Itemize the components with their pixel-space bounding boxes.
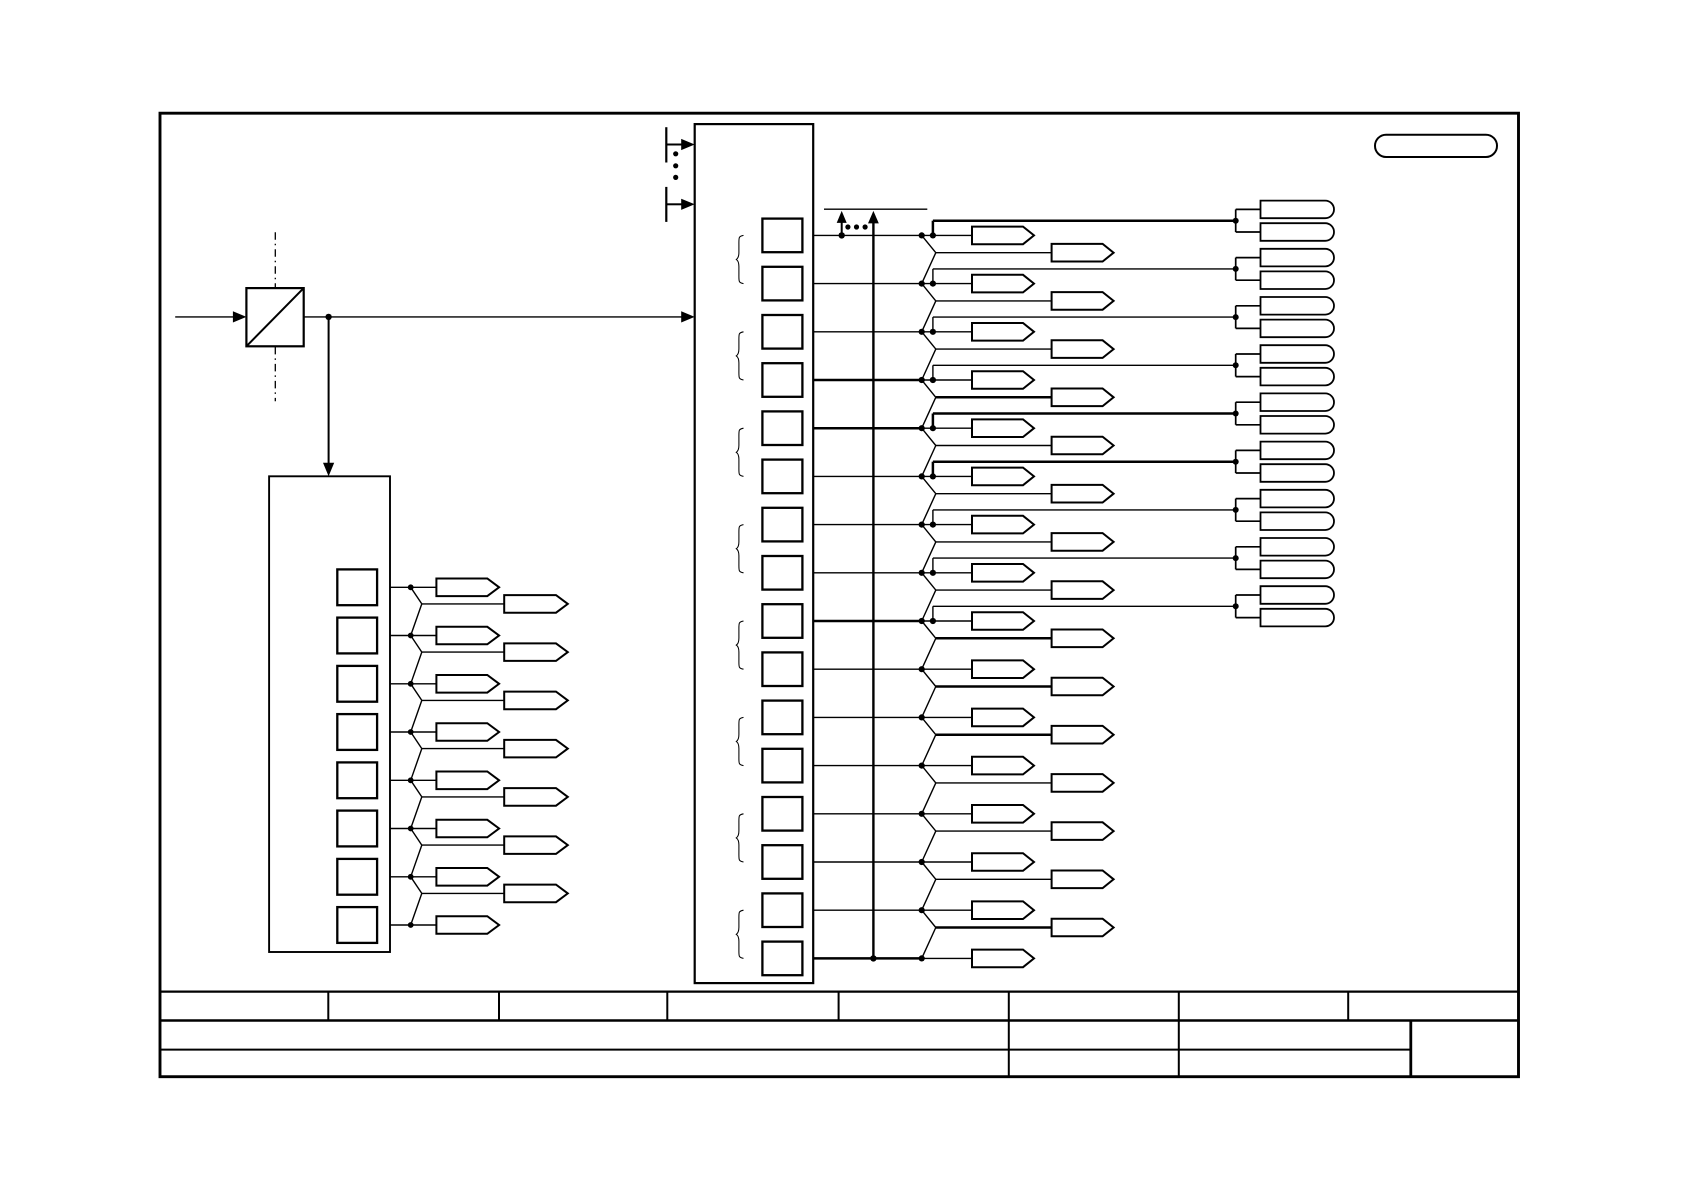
node pair 8 bracket junction <box>1233 555 1239 561</box>
zigzag return L7 <box>411 893 422 925</box>
pair 2 bracket <box>1235 258 1237 281</box>
wire to flag R14a <box>922 861 972 863</box>
sheet label capsule <box>1375 135 1497 157</box>
wire to flag R13a <box>922 813 972 815</box>
wire to flag L4a <box>411 731 437 733</box>
sampling bus vertical arrow line <box>872 222 874 958</box>
bus tap wire 2 <box>666 203 681 205</box>
node B1.5 link junction <box>930 473 936 479</box>
binector flag R10b <box>1052 678 1114 696</box>
bit pair brace 7 <box>736 814 743 862</box>
wire B2.1 output <box>390 635 411 637</box>
wire to flag L5a <box>411 779 437 781</box>
wire to flag L6b <box>422 844 504 846</box>
zigzag diagonal R12 <box>922 766 936 783</box>
wire to flag R15a <box>922 909 972 911</box>
wire to flag R4b <box>936 396 1052 399</box>
interface boundary dash-dot line lower <box>274 347 276 401</box>
wire to flag R9b <box>936 637 1052 640</box>
zigzag return L5 <box>411 797 422 829</box>
wire to flag L1a <box>411 586 437 588</box>
title header cell divider 2 <box>498 992 500 1021</box>
bus tap wire 1 <box>666 144 681 146</box>
node B2.4 junction <box>408 777 414 783</box>
zigzag return R6 <box>922 494 936 525</box>
wire to flag R16a <box>922 957 972 959</box>
wire B1.1 output <box>813 283 922 285</box>
wire to flag L2a <box>411 635 437 637</box>
bit square B2.0 <box>337 569 377 605</box>
bit square B2.6 <box>337 859 377 895</box>
wire B2.6 output <box>390 876 411 878</box>
wire B2.3 output <box>390 731 411 733</box>
wire to flag R14b <box>936 878 1052 880</box>
connector stadium 6 <box>1261 320 1335 338</box>
binector flag R14b <box>1052 871 1114 889</box>
zigzag diagonal R8 <box>922 573 936 590</box>
wire B1.4 output <box>813 427 922 430</box>
connector stadium 9 <box>1261 393 1335 411</box>
connector stadium 1 <box>1261 201 1334 219</box>
title lower divider a <box>1008 1021 1010 1077</box>
wire to flag R12a <box>922 765 972 767</box>
wire B1.0 output <box>813 234 922 236</box>
node B1.2 junction <box>919 329 925 335</box>
input wire <box>175 316 234 318</box>
node B1.4 junction <box>919 425 925 431</box>
interface boundary dash-dot line upper <box>274 232 276 287</box>
node pair 7 bracket junction <box>1233 507 1239 513</box>
binector flag R16a <box>972 950 1034 968</box>
title block row separator line <box>160 1049 1411 1051</box>
title header cell divider 1 <box>327 992 329 1021</box>
zigzag diagonal R15 <box>922 910 936 927</box>
binector flag R2a <box>972 275 1034 293</box>
binector flag R7a <box>972 516 1034 534</box>
binector flag R15b <box>1052 919 1114 937</box>
connector stadium 10 <box>1261 416 1335 434</box>
wire to flag L2b <box>422 651 504 653</box>
zigzag diagonal L3 <box>411 684 422 701</box>
status box B2 <box>269 476 390 952</box>
bus tap bar 1 <box>665 127 667 162</box>
connector stadium 15 <box>1261 538 1334 556</box>
pair 3 bracket <box>1235 306 1237 329</box>
connector stadium 16 <box>1261 561 1335 579</box>
node B2.2 junction <box>408 681 414 687</box>
wire B1.8 output <box>813 620 922 623</box>
node B1.2 link junction <box>930 329 936 335</box>
wire to flag R6b <box>936 493 1052 495</box>
bit pair brace 2 <box>736 332 743 380</box>
node B2.3 junction <box>408 729 414 735</box>
node B1.15 junction <box>919 955 925 961</box>
bit square B1.2 <box>762 315 802 349</box>
zigzag return R1 <box>922 253 936 284</box>
wire to flag R12b <box>936 782 1052 784</box>
wire to flag L3b <box>422 699 504 701</box>
title header cell divider 3 <box>666 992 668 1021</box>
wire to flag R15b <box>936 926 1052 929</box>
binector flag L2a <box>436 627 499 645</box>
binector flag R6a <box>972 468 1034 486</box>
node B1.8 junction <box>919 618 925 624</box>
wire to flag R10b <box>936 685 1052 688</box>
zigzag diagonal L1 <box>411 587 422 604</box>
binector flag R5a <box>972 419 1034 437</box>
title header cell divider 6 <box>1178 992 1180 1021</box>
title header cell divider 5 <box>1008 992 1010 1021</box>
binector flag R6b <box>1052 485 1114 503</box>
binector flag L8a <box>436 916 499 934</box>
zigzag diagonal R7 <box>922 525 936 542</box>
wire B1.13 output <box>813 861 922 863</box>
sampling small arrowhead <box>837 211 847 223</box>
binector flag R15a <box>972 901 1034 919</box>
zigzag return R3 <box>922 349 936 380</box>
wire B1.4 link line <box>933 412 1236 415</box>
drawing frame border <box>160 113 1519 1076</box>
bit square B1.10 <box>762 701 802 735</box>
title lower divider c <box>1409 1021 1412 1077</box>
binector flag R8b <box>1052 581 1114 599</box>
zigzag diagonal R1 <box>922 235 936 252</box>
node B2.1 junction <box>408 633 414 639</box>
node B1.3 link junction <box>930 377 936 383</box>
wire to flag R8b <box>936 589 1052 591</box>
wire B1.5 link line <box>933 460 1236 463</box>
binector flag R3a <box>972 323 1034 341</box>
connector stadium 3 <box>1261 249 1334 267</box>
binector flag L1a <box>436 579 499 597</box>
title lower divider b <box>1178 1021 1180 1077</box>
wire to flag R6a <box>922 475 972 477</box>
node B2.5 junction <box>408 826 414 832</box>
wire to flag R8a <box>922 572 972 574</box>
pair 6 bracket <box>1235 450 1237 473</box>
wire B1.8 link line <box>933 605 1236 607</box>
wire B1.4 link riser <box>932 414 935 429</box>
zigzag return R11 <box>922 735 936 766</box>
wire to flag R3a <box>922 331 972 333</box>
connector stadium 14 <box>1261 512 1334 530</box>
wire B1.0 link line <box>933 219 1236 222</box>
node B1.12 junction <box>919 811 925 817</box>
wire to flag L8a <box>411 924 437 926</box>
title block top line <box>160 990 1519 992</box>
binector flag R12b <box>1052 774 1114 792</box>
wire to flag R11b <box>936 733 1052 736</box>
zigzag diagonal R10 <box>922 669 936 686</box>
binector flag R8a <box>972 564 1034 582</box>
zigzag return R10 <box>922 687 936 718</box>
binector flag R9b <box>1052 630 1114 648</box>
node B1.10 junction <box>919 714 925 720</box>
wire B1.6 output <box>813 524 922 526</box>
zigzag diagonal R4 <box>922 380 936 397</box>
wire B1.6 link riser <box>932 510 934 525</box>
bit square B1.12 <box>762 797 802 831</box>
bit square B1.13 <box>762 845 802 879</box>
wire to flag R1b <box>936 252 1052 254</box>
bit square B1.5 <box>762 460 802 494</box>
wire to flag R5a <box>922 427 972 429</box>
converter U1 diagonal <box>246 288 303 346</box>
node B1.9 junction <box>919 666 925 672</box>
connector stadium 13 <box>1261 490 1335 508</box>
binector flag R2b <box>1052 292 1114 310</box>
bit square B1.7 <box>762 556 802 590</box>
node B1.7 link junction <box>930 570 936 576</box>
bit square B2.5 <box>337 811 377 847</box>
bit pair brace 4 <box>736 525 743 573</box>
binector flag R13b <box>1052 822 1114 840</box>
wire B2.5 output <box>390 828 411 830</box>
zigzag return R9 <box>922 638 936 669</box>
wire B1.11 output <box>813 765 922 767</box>
binector flag L3a <box>436 675 499 693</box>
zigzag return L2 <box>411 652 422 684</box>
wire to flag R1a <box>922 234 972 236</box>
bus tap ellipsis dots <box>673 151 678 156</box>
wire to flag R7b <box>936 541 1052 543</box>
zigzag diagonal R6 <box>922 476 936 493</box>
pair 8 bracket <box>1235 547 1237 570</box>
node B1.0 junction <box>919 232 925 238</box>
connector stadium 2 <box>1261 223 1335 241</box>
node B1.6 junction <box>919 522 925 528</box>
node B1.5 junction <box>919 473 925 479</box>
wire to flag L7a <box>411 876 437 878</box>
wire B1.2 output <box>813 331 922 333</box>
title header cell divider 7 <box>1347 992 1349 1021</box>
wire to flag R7a <box>922 524 972 526</box>
bit square B2.2 <box>337 666 377 702</box>
zigzag diagonal R3 <box>922 332 936 349</box>
node pair 4 bracket junction <box>1233 362 1239 368</box>
converter block U1 square <box>246 288 303 346</box>
bit square B1.0 <box>762 219 802 253</box>
connector stadium 5 <box>1261 297 1335 315</box>
wire B1.2 link line <box>933 316 1236 318</box>
zigzag return R8 <box>922 590 936 621</box>
wire to flag R10a <box>922 668 972 670</box>
binector flag R7b <box>1052 533 1114 551</box>
node B1.1 junction <box>919 281 925 287</box>
bit square B1.3 <box>762 363 802 397</box>
arrowhead into box B2 top <box>323 463 334 477</box>
zigzag return R12 <box>922 783 936 814</box>
zigzag return R4 <box>922 397 936 428</box>
bit square B1.8 <box>762 604 802 638</box>
node pair 5 bracket junction <box>1233 411 1239 417</box>
sampling small arrow base node <box>839 232 845 238</box>
bit square B1.14 <box>762 893 802 927</box>
connector stadium 17 <box>1261 586 1334 604</box>
zigzag return R5 <box>922 446 936 477</box>
bit pair brace 8 <box>736 910 743 958</box>
bus tap arrowhead 1 <box>681 139 695 150</box>
arrowhead into box B1 <box>681 311 695 322</box>
wire to flag L6a <box>411 828 437 830</box>
wire B1.1 link riser <box>932 269 934 284</box>
zigzag diagonal L5 <box>411 780 422 797</box>
binector flag L5b <box>504 788 568 806</box>
wire B1.7 link riser <box>932 558 934 573</box>
zigzag return R13 <box>922 831 936 862</box>
zigzag diagonal L2 <box>411 636 422 653</box>
wire B1.6 link line <box>933 509 1236 511</box>
connector stadium 18 <box>1261 609 1335 627</box>
zigzag return R7 <box>922 542 936 573</box>
binector flag L6b <box>504 836 568 854</box>
binector flag R10a <box>972 660 1034 678</box>
node bus end junction <box>870 955 876 961</box>
wire B1.15 output <box>813 957 922 960</box>
zigzag return R15 <box>922 928 936 959</box>
wire B1.14 output <box>813 909 922 911</box>
node B2.0 junction <box>408 584 414 590</box>
pair 1 bracket <box>1235 209 1237 232</box>
binector flag R1a <box>972 227 1034 245</box>
binector flag R9a <box>972 612 1034 630</box>
wire to flag R9a <box>922 620 972 622</box>
bus tap arrowhead 2 <box>681 199 695 210</box>
wire B1.5 link riser <box>932 462 935 477</box>
node B1.0 link junction <box>930 232 936 238</box>
wire B1.5 output <box>813 475 922 477</box>
wire B1.8 link riser <box>932 606 934 621</box>
zigzag return L6 <box>411 845 422 877</box>
node pair 9 bracket junction <box>1233 603 1239 609</box>
node B2.7 junction <box>408 922 414 928</box>
bit square B2.3 <box>337 714 377 750</box>
title block header bottom line <box>160 1019 1519 1022</box>
bit square B1.4 <box>762 411 802 445</box>
binector flag R4b <box>1052 389 1114 407</box>
connector stadium 8 <box>1261 368 1335 386</box>
binector flag L7b <box>504 885 568 903</box>
connector stadium 7 <box>1261 345 1334 363</box>
wire to flag L3a <box>411 683 437 685</box>
wire B2.4 output <box>390 779 411 781</box>
bit pair brace 3 <box>736 428 743 476</box>
binector flag L2b <box>504 643 568 661</box>
binector flag R11b <box>1052 726 1114 744</box>
node pair 3 bracket junction <box>1233 314 1239 320</box>
binector flag R14a <box>972 853 1034 871</box>
connector stadium 12 <box>1261 464 1334 482</box>
title header cell divider 4 <box>838 992 840 1021</box>
wire to flag L5b <box>422 796 504 798</box>
wire to flag R2a <box>922 283 972 285</box>
wire to flag R4a <box>922 379 972 381</box>
sampling bus arrowhead <box>868 211 879 224</box>
wire to flag R3b <box>936 348 1052 350</box>
wire to flag R2b <box>936 300 1052 302</box>
bit pair brace 6 <box>736 717 743 765</box>
bus tap bar 2 <box>665 187 667 222</box>
wire down to box B2 <box>328 317 330 463</box>
zigzag diagonal R14 <box>922 862 936 879</box>
node B1.8 link junction <box>930 618 936 624</box>
wire B1.7 output <box>813 572 922 574</box>
wire B1.10 output <box>813 716 922 718</box>
node B1.4 link junction <box>930 425 936 431</box>
zigzag return L1 <box>411 604 422 636</box>
binector flag R4a <box>972 371 1034 389</box>
node B1.6 link junction <box>930 522 936 528</box>
bit square B1.15 <box>762 942 802 976</box>
wire B1.0 link riser <box>932 221 935 236</box>
binector flag R12a <box>972 757 1034 775</box>
wire B1.3 link riser <box>932 365 934 380</box>
binector flag L4a <box>436 723 499 741</box>
node pair 6 bracket junction <box>1233 459 1239 465</box>
node B1.1 link junction <box>930 281 936 287</box>
binector flag R11a <box>972 709 1034 727</box>
zigzag diagonal R9 <box>922 621 936 638</box>
zigzag return L4 <box>411 749 422 781</box>
sampling top line <box>824 208 927 210</box>
zigzag diagonal R11 <box>922 717 936 734</box>
node pair 2 bracket junction <box>1233 266 1239 272</box>
pair 7 bracket <box>1235 499 1237 522</box>
zigzag diagonal L7 <box>411 877 422 894</box>
zigzag return L3 <box>411 700 422 732</box>
zigzag diagonal L6 <box>411 829 422 846</box>
wire B2.7 output <box>390 924 411 926</box>
node B1.14 junction <box>919 907 925 913</box>
node junction on converter output <box>325 314 331 320</box>
node B1.13 junction <box>919 859 925 865</box>
binector flag R13a <box>972 805 1034 823</box>
binector flag L5a <box>436 772 499 790</box>
node pair 1 bracket junction <box>1233 218 1239 224</box>
node B1.3 junction <box>919 377 925 383</box>
binector flag L7a <box>436 868 499 886</box>
wire to flag R13b <box>936 830 1052 832</box>
wire to flag L7b <box>422 892 504 894</box>
bit square B1.11 <box>762 749 802 783</box>
pair 4 bracket <box>1235 354 1237 377</box>
bit pair brace 5 <box>736 621 743 669</box>
wire B2.0 output <box>390 586 411 588</box>
wire converter to box B1 <box>304 316 682 318</box>
wire B2.2 output <box>390 683 411 685</box>
zigzag return R14 <box>922 879 936 910</box>
wire B1.1 link line <box>933 268 1236 270</box>
wire to flag L1b <box>422 603 504 605</box>
wire to flag R5b <box>936 445 1052 447</box>
bit pair brace 1 <box>736 235 743 283</box>
bit square B2.4 <box>337 762 377 798</box>
zigzag diagonal R2 <box>922 284 936 301</box>
wire to flag L4b <box>422 748 504 750</box>
wire B1.2 link riser <box>932 317 934 332</box>
wire B1.9 output <box>813 668 922 670</box>
wire B1.7 link line <box>933 557 1236 559</box>
binector flag L4b <box>504 740 568 758</box>
wire B1.3 output <box>813 379 922 382</box>
wire to flag R11a <box>922 716 972 718</box>
connector stadium 4 <box>1261 271 1335 289</box>
binector flag L6a <box>436 820 499 838</box>
binector flag R1b <box>1052 244 1114 262</box>
binector flag L3b <box>504 692 568 710</box>
sampling small arrow line <box>841 222 843 235</box>
binector flag R5b <box>1052 437 1114 455</box>
